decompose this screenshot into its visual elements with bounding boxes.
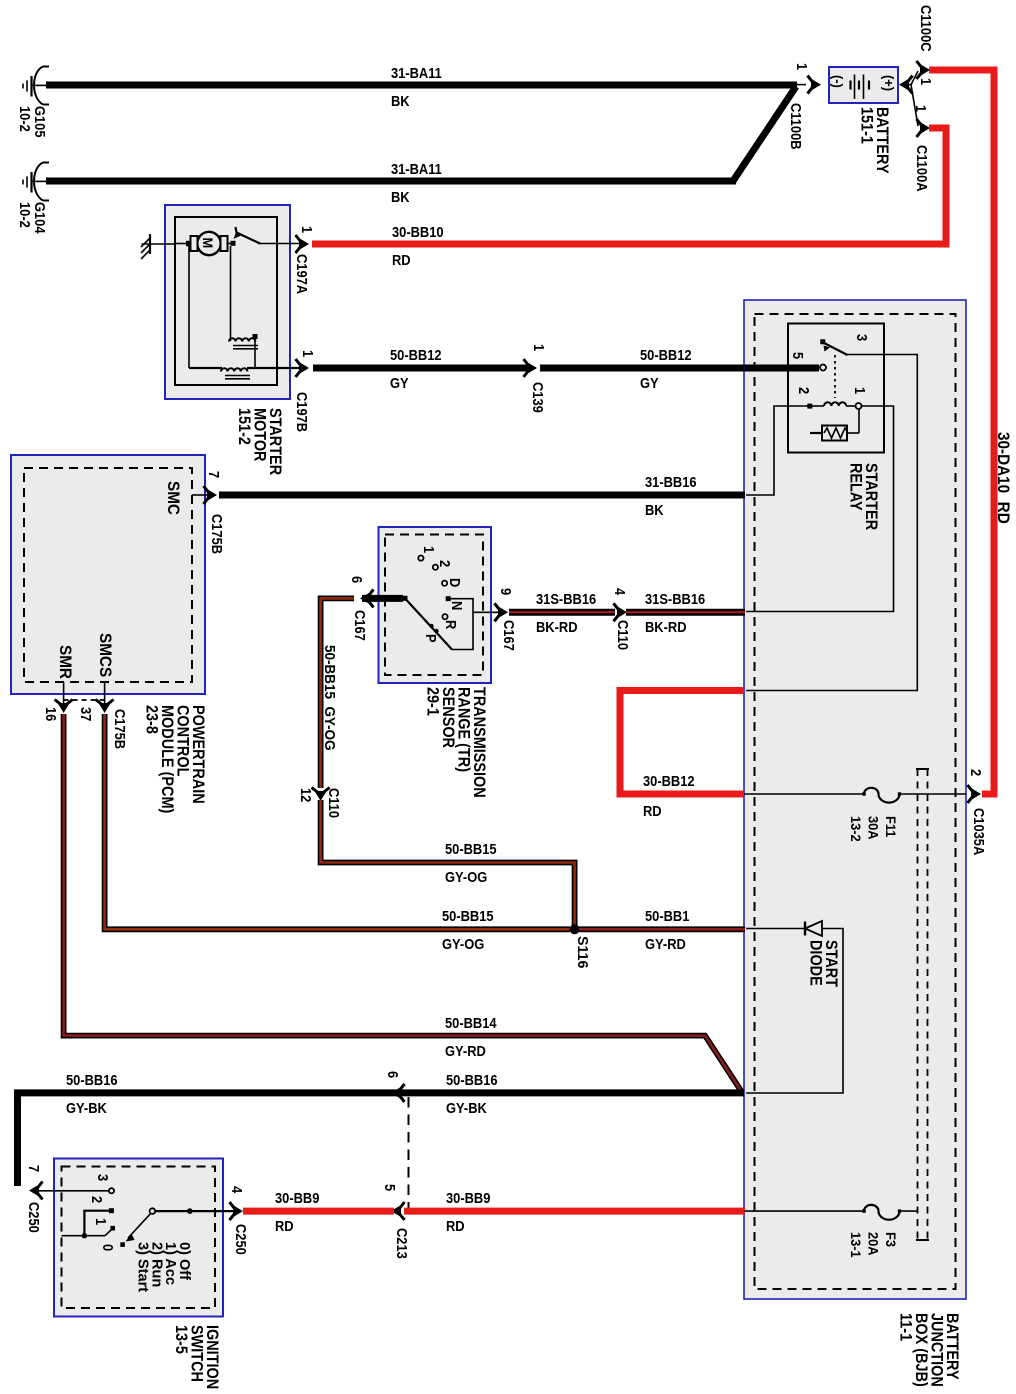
svg-text:GY: GY: [390, 374, 409, 391]
svg-text:GY-OG: GY-OG: [442, 935, 484, 952]
svg-text:50-BB14: 50-BB14: [445, 1014, 497, 1031]
svg-text:S116: S116: [574, 936, 590, 968]
svg-text:C110: C110: [615, 620, 632, 650]
svg-text:GY-RD: GY-RD: [645, 935, 686, 952]
connector C1100C pin 1: [917, 61, 931, 79]
svg-text:C175B: C175B: [112, 709, 129, 749]
wire 50-BB12 GY C139 to relay pin 5: [540, 365, 819, 372]
connector C197B pin 1: [296, 359, 310, 377]
svg-text:1: 1: [913, 105, 930, 112]
svg-text:M: M: [200, 238, 215, 249]
fuse F11 30A: [862, 792, 865, 795]
battery junction box BJB: [744, 300, 966, 1299]
svg-text:SMCS: SMCS: [96, 633, 115, 677]
wire 50-BB15 GY-OG from PCM pin 37: [105, 714, 570, 929]
svg-text:C139: C139: [530, 382, 547, 413]
svg-text:30-DA10 RD: 30-DA10 RD: [994, 432, 1013, 524]
starter relay box: [788, 324, 884, 453]
wire 50-BB1 GY-RD S116 to BJB: [579, 926, 745, 932]
connector C1100A pin 1: [917, 119, 931, 137]
wire 30-BB10 RD from C1100A to starter: [312, 128, 946, 244]
svg-text:6: 6: [385, 1071, 402, 1078]
wire 30-BB9 RD ignition to C213: [243, 1208, 394, 1215]
wire 50-BB12 GY starter to C139: [313, 365, 529, 372]
wire 50-BB14 GY-RD from PCM pin 16: [64, 714, 742, 1092]
relay dotted actuator line: [834, 355, 836, 398]
TR switch arm and output: [403, 596, 408, 601]
start diode: [746, 928, 805, 930]
svg-text:1: 1: [918, 78, 935, 85]
svg-text:37: 37: [78, 707, 95, 722]
ground G105: [34, 67, 49, 105]
fuse strip dashed: [917, 769, 919, 1240]
svg-text:GY-BK: GY-BK: [446, 1099, 487, 1116]
svg-text:30-BB9: 30-BB9: [446, 1189, 491, 1206]
PCM pin 16: [63, 682, 65, 706]
svg-text:C250: C250: [233, 1224, 250, 1255]
svg-text:C1100C: C1100C: [918, 5, 935, 52]
solenoid coil lower: [189, 367, 222, 369]
svg-text:SMR: SMR: [56, 645, 75, 679]
svg-text:50-BB1: 50-BB1: [645, 907, 690, 924]
ground G104: [34, 163, 49, 201]
battery positive terminal connector: [899, 76, 913, 94]
TR pin 6 wire: [362, 595, 403, 602]
wire 50-BB15 GY-OG TR sensor to S116 via C110 pin 12: [321, 598, 354, 703]
wire 50-BB16 GY-BK: [18, 1093, 745, 1186]
svg-text:50-BB16: 50-BB16: [446, 1071, 498, 1088]
solenoid coil upper: [229, 338, 255, 341]
svg-text:50-BB12: 50-BB12: [640, 346, 692, 363]
svg-text:RD: RD: [392, 251, 411, 268]
PCM box: [11, 455, 205, 694]
connector C213 dashed link: [408, 1097, 410, 1209]
svg-text:GY-BK: GY-BK: [66, 1099, 107, 1116]
wire 31S-BB16 BK-RD C110 to BJB: [626, 609, 745, 616]
svg-text:0: 0: [100, 1244, 117, 1251]
wire 30-DA10 RD from C1100C down right side: [929, 70, 994, 794]
TR position contacts: [418, 556, 423, 561]
svg-text:C213: C213: [394, 1228, 411, 1259]
connector C110 pin 12: [312, 788, 330, 802]
connector C1035A pin 2: [968, 785, 982, 803]
svg-text:C110: C110: [326, 788, 343, 818]
relay resistor: [822, 426, 847, 441]
connector C139 pin 1: [524, 359, 538, 377]
relay pin 3 contact and arm: [820, 339, 825, 344]
svg-text:(-): (-): [830, 75, 845, 88]
svg-text:RD: RD: [446, 1217, 465, 1234]
wire relay pin3 to 30-BB12 exit: [746, 355, 917, 691]
svg-text:1: 1: [300, 350, 317, 357]
svg-text:GY: GY: [640, 374, 659, 391]
svg-text:50-BB15 GY-OG: 50-BB15 GY-OG: [321, 645, 338, 751]
wire 30-BB9 RD C213 to BJB: [404, 1208, 745, 1215]
ignition contact 3: [109, 1188, 114, 1193]
wire 30-BB12 RD loop: [620, 691, 744, 795]
svg-text:P: P: [423, 634, 440, 643]
svg-text:C197A: C197A: [294, 254, 311, 294]
svg-text:SMC: SMC: [164, 481, 183, 515]
starter motor box 151-2: [165, 205, 290, 399]
ignition switch arm: [150, 1208, 156, 1214]
starter internal wires down to coils: [188, 246, 190, 368]
svg-text:C1100A: C1100A: [914, 145, 931, 192]
svg-text:50-BB16: 50-BB16: [66, 1071, 118, 1088]
svg-text:RD: RD: [643, 802, 662, 819]
battery U1 box: [829, 67, 898, 103]
svg-text:30-BB12: 30-BB12: [643, 772, 695, 789]
svg-text:C197B: C197B: [294, 392, 311, 432]
svg-text:C250: C250: [26, 1202, 43, 1233]
wire 31-BB16 BK PCM to BJB: [219, 492, 745, 499]
svg-text:2: 2: [796, 387, 813, 394]
svg-text:31-BB16: 31-BB16: [645, 473, 697, 490]
svg-text:D: D: [447, 578, 464, 587]
svg-text:50-BB15: 50-BB15: [445, 840, 497, 857]
svg-text:C1100B: C1100B: [788, 103, 805, 150]
svg-text:5: 5: [790, 352, 807, 359]
PCM pin 37: [104, 682, 106, 706]
svg-text:12: 12: [298, 788, 315, 803]
wire C250 pin7 into contact 3: [39, 1190, 109, 1192]
svg-text:C167: C167: [501, 620, 518, 651]
svg-text:RD: RD: [275, 1217, 294, 1234]
connector C167 pin 6: [360, 589, 374, 607]
svg-text:2: 2: [437, 560, 454, 567]
wire relay pin2 to 31-BB16 entry: [746, 406, 809, 495]
fuse F3 20A: [862, 1209, 865, 1212]
svg-text:N: N: [449, 601, 466, 610]
svg-text:16: 16: [43, 707, 60, 722]
transmission range sensor box: [379, 527, 492, 683]
svg-text:BK: BK: [391, 92, 410, 109]
ignition switch box 13-5: [54, 1159, 223, 1317]
svg-text:50-BB15: 50-BB15: [442, 907, 494, 924]
svg-text:31-BA11: 31-BA11: [391, 160, 442, 177]
connector C197A pin 1: [296, 235, 310, 253]
svg-text:7: 7: [26, 1165, 43, 1172]
svg-text:6: 6: [349, 576, 366, 583]
svg-text:1: 1: [531, 344, 548, 351]
svg-text:31S-BB16: 31S-BB16: [645, 590, 705, 607]
svg-text:BK: BK: [645, 501, 664, 518]
svg-text:GY-OG: GY-OG: [445, 868, 487, 885]
wire relay pin1 to 31S-BB16 entry: [746, 406, 894, 612]
svg-text:31S-BB16: 31S-BB16: [536, 590, 596, 607]
connector C167 pin 9: [495, 603, 509, 621]
svg-text:BK-RD: BK-RD: [536, 618, 578, 635]
wire diode to 50-BB16 entry: [746, 929, 843, 1094]
svg-text:1: 1: [299, 226, 316, 233]
svg-text:30-BB9: 30-BB9: [275, 1189, 320, 1206]
ignition contact 0: [120, 1242, 125, 1247]
svg-text:1: 1: [421, 546, 438, 553]
motor M symbol: [197, 232, 220, 255]
wire 31S-BB16 BK-RD to C110: [509, 609, 615, 616]
wire joining diagonal to battery negative: [733, 87, 796, 182]
svg-text:GY-RD: GY-RD: [445, 1042, 486, 1059]
svg-text:BK-RD: BK-RD: [645, 618, 687, 635]
svg-text:2: 2: [89, 1196, 106, 1203]
svg-text:5: 5: [382, 1184, 399, 1191]
svg-text:R: R: [443, 620, 460, 629]
chassis ground hatch at starter: [149, 234, 151, 254]
starter solenoid switch arm: [236, 227, 261, 244]
svg-text:50-BB12: 50-BB12: [390, 346, 442, 363]
connector C213 pin 6: [391, 1084, 405, 1102]
svg-text:3: 3: [854, 334, 871, 341]
svg-text:31-BA11: 31-BA11: [391, 64, 442, 81]
svg-text:1: 1: [852, 387, 869, 394]
svg-text:7: 7: [206, 471, 223, 478]
connector C250 pin 7: [29, 1182, 43, 1200]
svg-text:STARTDIODE: STARTDIODE: [806, 940, 840, 987]
connector C213 pin 5: [391, 1202, 405, 1220]
svg-text:4: 4: [229, 1186, 246, 1193]
connector C110 pin 4: [614, 603, 628, 621]
svg-text:(+): (+): [881, 75, 896, 91]
svg-text:BK: BK: [391, 188, 410, 205]
wire 31-BA11 BK (G104): [46, 178, 736, 185]
svg-text:3: 3: [95, 1174, 112, 1181]
battery cell symbol: [849, 81, 851, 90]
svg-text:9: 9: [498, 588, 515, 595]
PCM pin 7 C175B: [192, 494, 208, 496]
connector C250 pin 4: [230, 1202, 244, 1220]
wire to fuse F3: [744, 1210, 863, 1212]
ignition contact 2 and wiring: [109, 1208, 114, 1213]
connector C1100B pin 1: [808, 76, 822, 94]
wire to fuse F11: [744, 793, 863, 795]
splice S116: [570, 924, 580, 934]
svg-text:30-BB10: 30-BB10: [392, 223, 444, 240]
svg-text:4: 4: [612, 588, 629, 595]
svg-text:C175B: C175B: [209, 514, 226, 554]
wire 31-BA11 BK (G105 to battery): [46, 82, 797, 89]
svg-text:C1035A: C1035A: [971, 808, 988, 855]
svg-text:1: 1: [93, 1218, 110, 1225]
svg-text:2: 2: [968, 769, 985, 776]
svg-text:1: 1: [794, 63, 811, 70]
svg-text:C167: C167: [352, 610, 369, 641]
